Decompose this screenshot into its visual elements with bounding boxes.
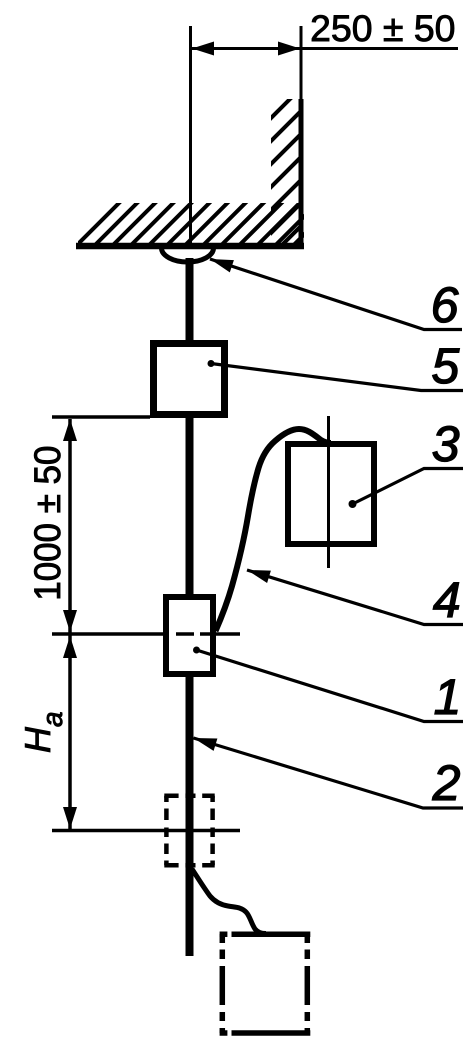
extension line at bottom of box 5 [52, 415, 150, 419]
label 2 [432, 765, 459, 800]
leader arrowhead 4 [247, 570, 271, 583]
box 3 [288, 444, 374, 544]
wire: wall extension line (thin, above wall) [300, 26, 303, 100]
leader line 3 [353, 469, 464, 505]
wire: rope extension line above ceiling [189, 26, 192, 247]
vertical dimension line [68, 419, 72, 829]
leader dot 3 [349, 500, 357, 508]
label 4 [433, 583, 459, 617]
label 6 [434, 287, 459, 322]
arrowhead up (top of 1000 dim) [63, 419, 77, 441]
dimension line 250±50 [191, 47, 459, 50]
dimension text Ha (rotated) [25, 712, 62, 752]
label 3 [433, 426, 459, 461]
dashed sensor rect on rope [164, 796, 214, 866]
ceiling line [76, 243, 304, 250]
ceiling hatch [60, 200, 339, 262]
thin line through box 3 [327, 416, 330, 568]
leader dot 1 [193, 647, 200, 654]
dimension text 1000 ± 50 (rotated) [34, 447, 60, 598]
leader line 4 [247, 570, 463, 625]
leader line 6 [210, 259, 462, 330]
extension line through box 1 (right part) [216, 632, 240, 636]
hook loop (item 6) [162, 248, 214, 262]
arrowhead left of 250 dim [192, 42, 214, 56]
label 5 [433, 349, 460, 384]
arrowhead up (top of Ha dim) [63, 636, 77, 658]
leader line 5 [211, 364, 463, 391]
leader line 2 [194, 738, 464, 808]
leader line 1 [197, 650, 464, 722]
dimension text 250 ± 50 [312, 15, 454, 41]
label 1 [435, 680, 457, 714]
box 5 [154, 344, 225, 415]
wall line [299, 99, 304, 249]
wall hatch [139, 95, 432, 250]
extension line through box 1 (left part) [52, 632, 163, 636]
rope (item 2) [186, 258, 194, 956]
arrowhead down (bottom of Ha dim) [63, 807, 77, 829]
dashed bottom unit box [220, 934, 311, 1033]
extension line at bottom of Ha [52, 829, 240, 833]
leader dot 5 [208, 360, 215, 367]
leader arrowhead 2 [194, 738, 218, 751]
dashed extension inside box 1 [176, 632, 194, 636]
wavy cord to bottom unit [192, 869, 266, 934]
arrowhead down (bottom of 1000 dim) [63, 610, 77, 632]
leader arrowhead 6 [210, 259, 234, 272]
box 1 [166, 597, 213, 674]
cable (item 4) [216, 429, 332, 631]
arrowhead right of 250 dim [278, 42, 300, 56]
